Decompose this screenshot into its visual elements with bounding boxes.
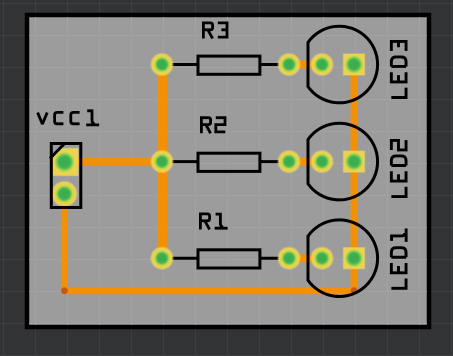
connector VCC1 outline [51, 144, 81, 208]
pad LED1 round [310, 247, 333, 270]
LED2 outline [308, 123, 378, 200]
pad R3 left [150, 53, 173, 76]
resistor R1 [162, 250, 289, 268]
label LED2 [391, 140, 406, 196]
pad LED3 round [310, 53, 333, 76]
label VCC1 [38, 111, 100, 125]
pad R3 right [277, 53, 300, 76]
label R3 [203, 23, 227, 39]
LED3 outline [308, 26, 378, 103]
pad R1 left [150, 247, 173, 270]
pad LED2 round [310, 150, 333, 173]
pad LED3 square [343, 53, 365, 75]
LED1 outline [308, 220, 378, 297]
pad R2 left [150, 150, 173, 173]
pad LED1 square [343, 247, 365, 269]
pad R1 right [277, 247, 300, 270]
wire: vertical bus R3 left pad to R1 left pad [157, 65, 167, 259]
bendpoint bottom-left [61, 287, 68, 294]
pad R2 right [277, 150, 300, 173]
resistor R3 [162, 56, 289, 74]
label R2 [201, 118, 225, 134]
label R1 [200, 214, 227, 230]
label LED1 [391, 228, 406, 288]
wire: R2 right pad to LED2 round pad [289, 158, 322, 166]
PCB board [27, 15, 429, 327]
resistor R2 [162, 153, 289, 171]
pad VCC1 pin2 (round) [51, 181, 77, 207]
pad LED2 square [343, 150, 365, 172]
pad VCC1 pin1 (square) [50, 148, 78, 176]
wire: R3 right pad to LED3 round pad [289, 61, 322, 69]
bendpoint bottom-right [351, 287, 358, 294]
label LED3 [391, 41, 406, 97]
wire: VCC1 round pad to bottom rail to right rail up through LED square pads [64, 65, 354, 291]
wire: R1 right pad to LED1 round pad [289, 254, 322, 262]
wire: VCC1 square pad to R2 left pad [65, 158, 163, 166]
